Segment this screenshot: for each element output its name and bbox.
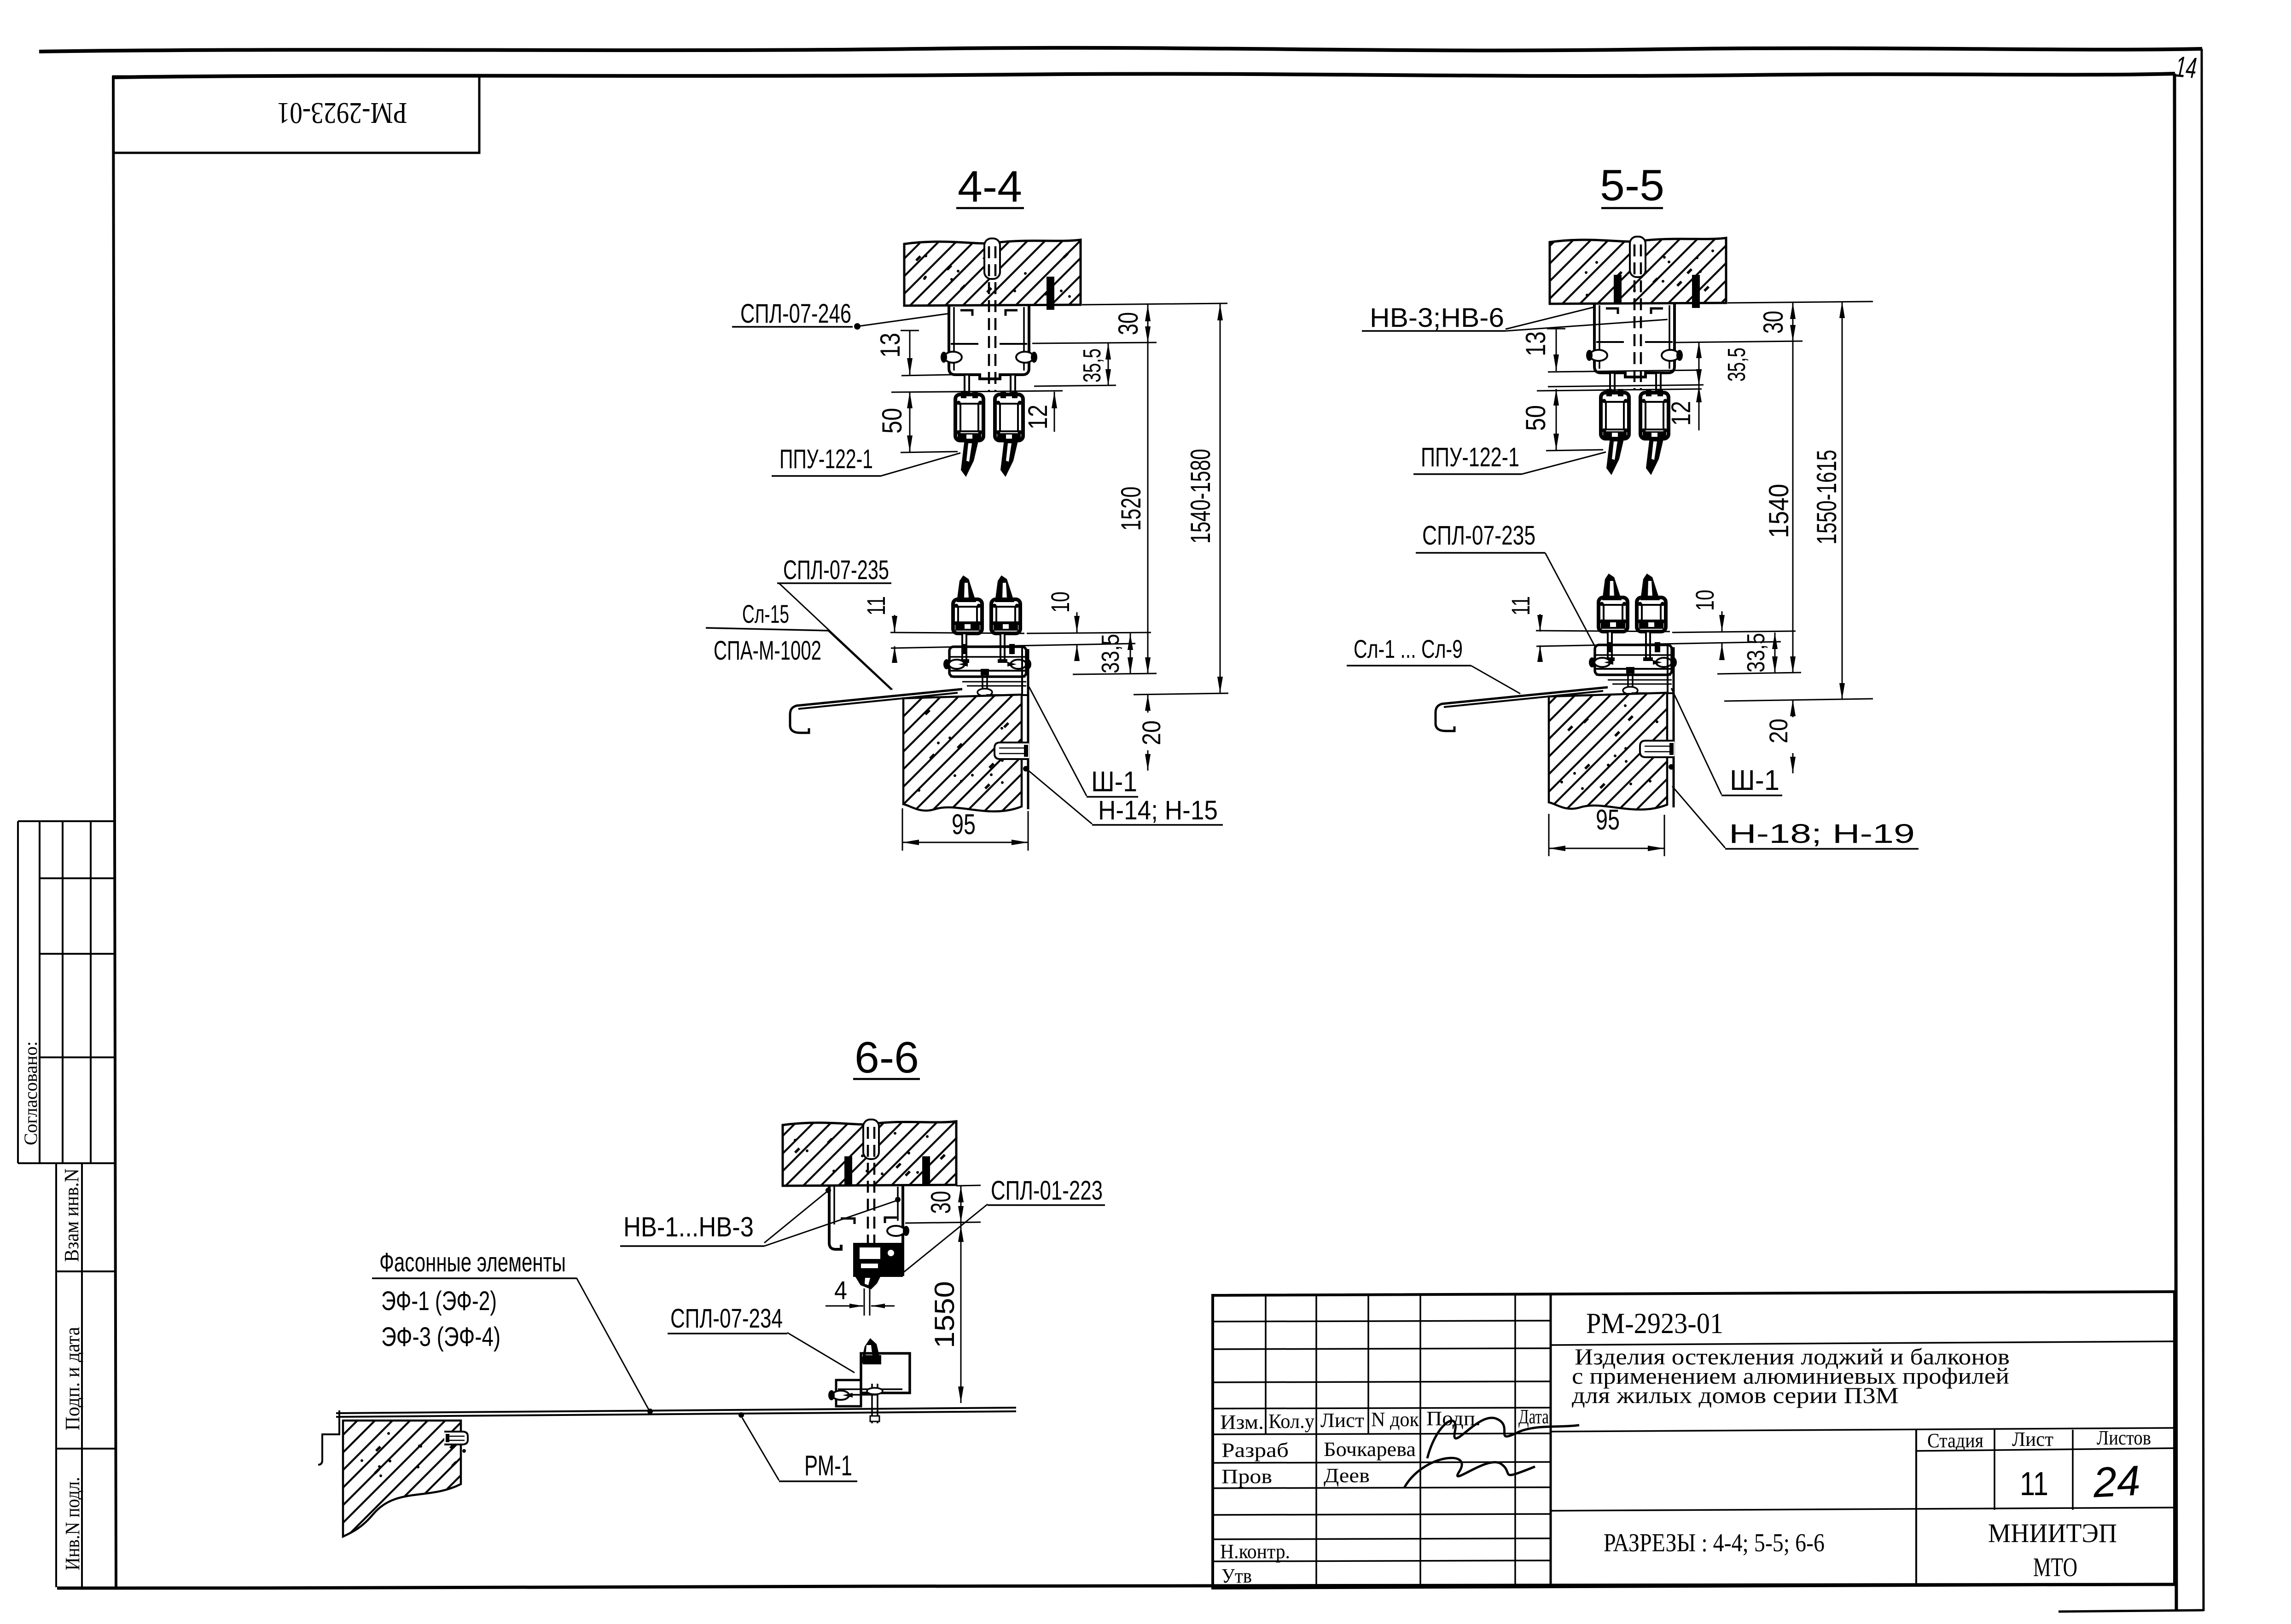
svg-text:13: 13: [1520, 331, 1551, 356]
right top sash profile: [1640, 393, 1669, 439]
black anchors 6-6: [844, 1156, 852, 1186]
left top sash profile: [955, 394, 983, 441]
dim 13 (5-5): [1556, 329, 1557, 371]
svg-text:Изм.: Изм.: [1220, 1411, 1264, 1433]
svg-text:10: 10: [1046, 592, 1075, 613]
svg-text:СПЛ-07-235: СПЛ-07-235: [783, 555, 889, 585]
sash bottom reference line: [1536, 631, 1670, 632]
svg-text:1550-1615: 1550-1615: [1811, 450, 1842, 545]
bracket Ш-1: [1667, 645, 1669, 694]
extension line box bottom (5-5): [1548, 370, 1702, 372]
svg-text:ЭФ-1 (ЭФ-2): ЭФ-1 (ЭФ-2): [381, 1286, 497, 1316]
dim 12 (4-4): [1054, 392, 1055, 432]
anchor pin: [994, 742, 1029, 759]
svg-text:PM-2923-01: PM-2923-01: [277, 96, 407, 130]
extension line y838 (4-4): [1034, 385, 1116, 386]
extension line top (4-4): [1082, 303, 1227, 305]
extension line y1464 (4-4): [1073, 673, 1157, 674]
right bottom sash profile: [1640, 574, 1660, 600]
svg-text:Бочкарева: Бочкарева: [1324, 1438, 1416, 1461]
svg-text:СПЛ-01-223: СПЛ-01-223: [991, 1176, 1103, 1206]
leader dot on slab face: [1669, 764, 1674, 770]
title block outer frame: [1213, 1292, 2175, 1588]
anchor slot in slab: [984, 238, 1000, 279]
anchor pin: [1640, 741, 1675, 757]
svg-text:Пров: Пров: [1221, 1465, 1272, 1488]
svg-text:30: 30: [1113, 312, 1144, 335]
svg-text:Согласовано:: Согласовано:: [20, 1041, 41, 1145]
svg-text:30: 30: [1758, 311, 1789, 334]
dim text 30 (4-4): [1113, 312, 1144, 335]
svg-text:13: 13: [875, 333, 906, 358]
svg-text:20: 20: [1764, 719, 1793, 743]
extension line y982 (4-4): [901, 452, 958, 452]
svg-text:Лист: Лист: [1320, 1409, 1364, 1432]
fascia left step: [318, 1410, 339, 1465]
dim text 1550-1615 (5-5): [1811, 450, 1842, 545]
fascia sheet РМ-1: [336, 1408, 1016, 1413]
svg-text:95: 95: [952, 809, 976, 841]
extension line y741 (5-5): [1676, 341, 1803, 342]
svg-text:Стадия: Стадия: [1927, 1429, 1983, 1452]
left bottom sash profile: [957, 575, 976, 602]
left top sash profile: [1601, 393, 1629, 439]
pin below fang 6-6: [864, 1288, 865, 1316]
right bottom sash profile: [995, 575, 1014, 602]
extension line box bottom y814 (4-4): [901, 375, 951, 376]
svg-text:Листов: Листов: [2097, 1427, 2151, 1449]
dim 13 (4-4): [909, 331, 911, 375]
svg-text:Н.контр.: Н.контр.: [1220, 1540, 1290, 1563]
svg-text:Кол.у: Кол.у: [1268, 1410, 1314, 1433]
extension line y2656 (6-6): [905, 1222, 981, 1223]
label Взам инв.N: [60, 1169, 83, 1262]
fang down 6-6: [855, 1277, 880, 1289]
svg-text:Сл-15: Сл-15: [742, 599, 789, 628]
svg-text:ЭФ-3 (ЭФ-4): ЭФ-3 (ЭФ-4): [381, 1322, 500, 1352]
svg-text:5-5: 5-5: [1600, 161, 1664, 210]
svg-text:35,5: 35,5: [1078, 348, 1106, 383]
svg-text:11: 11: [861, 596, 890, 615]
extension line y1520 (5-5): [1724, 699, 1873, 701]
bracket Ш-1: [1021, 647, 1023, 696]
dim 12 (5-5): [1698, 386, 1700, 430]
svg-text:35,5: 35,5: [1723, 348, 1750, 382]
dim line 1550-1615 (5-5): [1842, 302, 1843, 700]
svg-text:11: 11: [2020, 1466, 2048, 1502]
svg-text:Сл-1 ... Сл-9: Сл-1 ... Сл-9: [1354, 634, 1463, 663]
dim 10 (4-4): [1076, 612, 1078, 632]
top frame profile box 6-6: [829, 1186, 841, 1249]
extension line y1374 right (5-5): [1672, 631, 1796, 632]
top-left doc number box: [113, 76, 479, 153]
svg-text:Ш-1: Ш-1: [1091, 766, 1137, 798]
svg-text:1540-1580: 1540-1580: [1185, 449, 1216, 544]
doc number (rotated 180): [277, 96, 407, 130]
frame right border: [2175, 74, 2176, 1610]
svg-text:30: 30: [925, 1191, 956, 1214]
dim text 30 (5-5): [1758, 311, 1789, 334]
svg-text:1520: 1520: [1116, 487, 1146, 531]
dashed anchor bolt: [988, 246, 990, 391]
frame top border: [112, 74, 2175, 77]
page top scan edge: [39, 48, 2202, 52]
extension line top (5-5): [1727, 302, 1873, 303]
concrete lintel slab (hatched): [904, 240, 1081, 306]
signature 2: [1404, 1458, 1535, 1488]
svg-text:Подп. и дата: Подп. и дата: [61, 1327, 84, 1431]
frame left border: [113, 76, 116, 1587]
sash bottom reference line: [890, 632, 1024, 633]
anchor slot 6-6: [863, 1119, 879, 1159]
dim 95 (5-5): [1548, 814, 1550, 856]
frame bottom border: [57, 1584, 2175, 1589]
svg-text:24: 24: [2092, 1457, 2142, 1506]
svg-text:Деев: Деев: [1324, 1464, 1370, 1487]
dim 95 (4-4): [902, 808, 903, 851]
black anchor bolt: [1692, 275, 1700, 308]
svg-text:Фасонные элементы: Фасонные элементы: [379, 1247, 566, 1277]
dim 10 (5-5): [1721, 611, 1723, 632]
dim 11 (5-5): [1540, 614, 1541, 632]
label Инв.N подл.: [61, 1477, 84, 1571]
svg-text:20: 20: [1137, 720, 1166, 745]
sill assembly box: [1595, 645, 1672, 675]
balcony slab (hatched): [903, 695, 1022, 812]
svg-text:Н-14; Н-15: Н-14; Н-15: [1098, 795, 1218, 825]
balcony slab 6-6 (hatched): [343, 1421, 461, 1537]
top frame profile box: [1594, 304, 1675, 377]
page right scan edge: [2202, 49, 2204, 1611]
dim 33,5 (5-5): [1774, 632, 1776, 673]
svg-text:33,5: 33,5: [1097, 634, 1124, 673]
svg-text:12: 12: [1666, 401, 1696, 426]
svg-text:РМ-2923-01: РМ-2923-01: [1586, 1307, 1723, 1340]
svg-text:4: 4: [834, 1276, 847, 1305]
label Согласовано: [20, 1041, 41, 1145]
top frame profile box: [949, 306, 1029, 379]
svg-text:33,5: 33,5: [1742, 633, 1770, 673]
svg-text:50: 50: [1520, 405, 1551, 431]
extension line y1508 (4-4): [1134, 693, 1228, 695]
dim text 1540-1580 (4-4): [1185, 449, 1216, 544]
balcony slab (hatched): [1549, 693, 1667, 810]
svg-text:11: 11: [1506, 596, 1535, 615]
svg-text:ППУ-122-1: ППУ-122-1: [1421, 442, 1519, 472]
svg-text:1550: 1550: [929, 1281, 960, 1348]
svg-text:НВ-3;НВ-6: НВ-3;НВ-6: [1370, 303, 1504, 333]
dim 35,5 (5-5): [1698, 342, 1700, 386]
extension line y745 (4-4): [1032, 342, 1157, 343]
sill top reference line: [1536, 642, 1781, 646]
svg-text:14: 14: [2174, 50, 2198, 85]
extension line y2576 (6-6): [956, 1185, 981, 1186]
svg-text:6-6: 6-6: [855, 1033, 919, 1082]
svg-text:Взам инв.N: Взам инв.N: [60, 1169, 83, 1262]
dim line 30/1520 (4-4): [1147, 305, 1149, 674]
sill top reference line: [891, 644, 1135, 648]
dim 35,5 (4-4): [1108, 343, 1109, 386]
extension line sash top (5-5): [1537, 389, 1702, 391]
label Подп. и дата: [61, 1327, 84, 1431]
lower unit fang up 6-6: [861, 1338, 881, 1363]
svg-text:РАЗРЕЗЫ : 4-4; 5-5; 6-6: РАЗРЕЗЫ : 4-4; 5-5; 6-6: [1604, 1529, 1825, 1557]
dim 33,5 (4-4): [1130, 633, 1131, 674]
svg-text:СПЛ-07-234: СПЛ-07-234: [670, 1304, 783, 1334]
flashing sheet: [1436, 687, 1608, 731]
sheets total 24 (handwritten): [2092, 1457, 2142, 1506]
page bottom-right scan corner: [2058, 1610, 2204, 1612]
sill assembly box: [949, 647, 1026, 677]
dashed anchor 6-6: [867, 1127, 869, 1246]
svg-text:СПЛ-07-246: СПЛ-07-246: [740, 299, 851, 329]
dim text 1520 (4-4): [1116, 487, 1146, 531]
dim 30 (6-6): [960, 1186, 962, 1223]
svg-text:Дата: Дата: [1518, 1405, 1549, 1428]
svg-text:12: 12: [1023, 405, 1053, 429]
extension line y838 (5-5): [1548, 385, 1704, 387]
left bottom sash profile: [1602, 574, 1622, 600]
dim line 1540-1580 (4-4): [1220, 304, 1221, 693]
flashing sheet: [790, 689, 962, 733]
anchor slot in slab: [1630, 237, 1646, 277]
svg-text:10: 10: [1690, 590, 1719, 611]
svg-text:для жилых домов серии П3М: для жилых домов серии П3М: [1572, 1382, 1899, 1408]
handwritten sheet number 14: [2174, 50, 2198, 85]
dim 50 (4-4): [909, 392, 911, 452]
black anchor bolt: [1047, 277, 1054, 310]
left attribute table: [18, 821, 115, 1587]
svg-text:Лист: Лист: [2012, 1428, 2053, 1450]
svg-text:Утв: Утв: [1221, 1565, 1252, 1587]
extension line y978 (5-5): [1546, 450, 1603, 451]
anchor pin 6-6: [444, 1432, 468, 1444]
dim line 30/1540 (5-5): [1792, 302, 1794, 673]
svg-text:МТО: МТО: [2033, 1552, 2077, 1582]
dim 1550 (6-6): [960, 1223, 962, 1403]
svg-text:1540: 1540: [1763, 484, 1794, 538]
leader dot on slab face: [1023, 766, 1029, 771]
svg-text:Н-18; Н-19: Н-18; Н-19: [1729, 819, 1915, 849]
svg-text:МНИИТЭП: МНИИТЭП: [1988, 1518, 2117, 1548]
dim 50 (5-5): [1556, 389, 1557, 450]
lower rail unit СПЛ-07-234: [861, 1353, 910, 1393]
svg-text:НВ-1...НВ-3: НВ-1...НВ-3: [623, 1212, 754, 1242]
dashed anchor bolt: [1634, 244, 1636, 389]
fixed sash section 6-6: [853, 1243, 903, 1277]
extension line y1462 (5-5): [1717, 673, 1801, 674]
dim text 1540 (5-5): [1763, 484, 1794, 538]
svg-text:50: 50: [877, 408, 907, 434]
dim 20 (4-4): [1147, 694, 1149, 713]
dim 20 (5-5): [1792, 700, 1794, 717]
title block grid: [1213, 1295, 2175, 1588]
svg-text:СПА-М-1002: СПА-М-1002: [714, 636, 821, 666]
svg-text:СПЛ-07-235: СПЛ-07-235: [1422, 521, 1535, 551]
svg-text:95: 95: [1596, 804, 1620, 836]
svg-text:Ш-1: Ш-1: [1730, 765, 1779, 796]
bolt down 6-6: [871, 1384, 873, 1423]
svg-text:ППУ-122-1: ППУ-122-1: [779, 444, 873, 474]
svg-text:4-4: 4-4: [958, 162, 1022, 211]
right top sash profile: [995, 394, 1023, 441]
svg-text:N док: N док: [1371, 1408, 1419, 1431]
dim 11 (4-4): [894, 615, 895, 632]
extension line y1376 right (4-4): [1027, 632, 1151, 633]
extension line sash top y851 (4-4): [891, 391, 1063, 392]
dim 4 (6-6): [826, 1305, 863, 1307]
concrete slab 6-6 (hatched): [783, 1121, 956, 1186]
svg-text:Инв.N подл.: Инв.N подл.: [61, 1477, 84, 1571]
svg-text:Разраб: Разраб: [1221, 1439, 1289, 1462]
signature 1: [1427, 1418, 1579, 1458]
svg-text:РМ-1: РМ-1: [804, 1450, 852, 1482]
concrete lintel slab (hatched): [1550, 238, 1726, 304]
